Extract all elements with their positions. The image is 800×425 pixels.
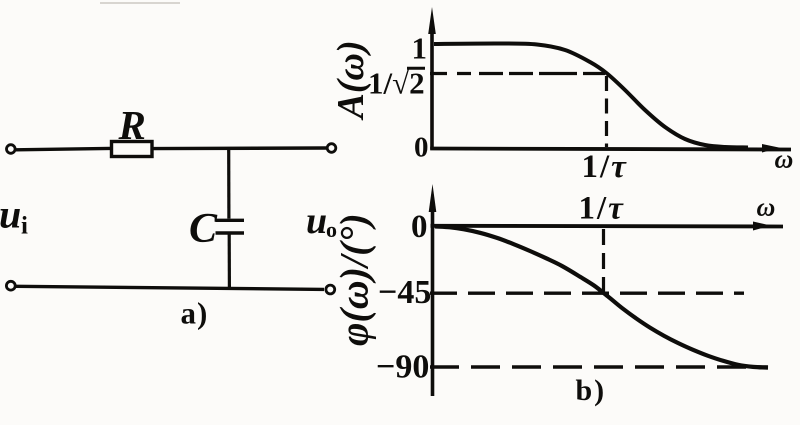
terminal: input top: [7, 145, 16, 154]
svg-text:i: i: [21, 213, 28, 240]
svg-text:u: u: [0, 192, 21, 237]
wire: top-right (resistor to output): [154, 146, 327, 150]
dashed level -45: [430, 292, 744, 295]
y-axis A: [430, 28, 434, 150]
y-axis A arrowhead: [428, 7, 436, 34]
x-axis omega top: [430, 149, 791, 150]
x-axis bottom arrowhead: [753, 222, 771, 231]
capacitor C plates: [216, 220, 245, 233]
svg-text:φ(ω)/(°): φ(ω)/(°): [332, 213, 377, 346]
x-axis top arrowhead: [762, 144, 780, 153]
svg-text:ω: ω: [775, 145, 794, 174]
svg-text:a): a): [181, 296, 209, 331]
dashed level 1/sqrt2: [430, 72, 605, 75]
svg-text:1/τ: 1/τ: [579, 191, 625, 227]
svg-text:R: R: [118, 102, 146, 148]
svg-text:C: C: [189, 206, 218, 252]
terminal: output bottom: [326, 285, 335, 294]
resistor R: [112, 142, 153, 157]
phase response curve: [435, 226, 768, 367]
dashed cutoff vertical bottom: [602, 229, 605, 293]
dashed level -90: [430, 365, 768, 368]
svg-text:b): b): [576, 374, 607, 407]
dashed cutoff vertical top: [605, 76, 608, 147]
svg-text:0: 0: [414, 132, 429, 164]
wire: bottom: [16, 286, 324, 289]
svg-text:A(ω): A(ω): [330, 40, 372, 120]
wire: top-left (input to resistor): [16, 148, 111, 149]
y-axis phi arrowhead: [429, 184, 437, 212]
sqrt vinculum: [407, 67, 425, 70]
y-axis phi: [431, 205, 435, 396]
svg-text:−90: −90: [376, 349, 429, 386]
svg-text:1/√2: 1/√2: [368, 66, 425, 101]
svg-text:u: u: [306, 200, 327, 242]
svg-text:−45: −45: [378, 274, 431, 311]
svg-text:1: 1: [412, 31, 428, 66]
svg-text:0: 0: [411, 209, 428, 245]
scan artifact line (decorative): [100, 2, 180, 4]
svg-text:ω: ω: [757, 193, 776, 222]
terminal: input bottom: [6, 281, 15, 290]
terminal: output top: [327, 144, 336, 153]
x-axis omega bottom: [431, 224, 784, 228]
amplitude response curve: [434, 43, 748, 147]
svg-text:1/τ: 1/τ: [582, 149, 628, 185]
wire: capacitor branch upper: [227, 150, 230, 219]
wire: capacitor branch lower: [228, 235, 231, 289]
